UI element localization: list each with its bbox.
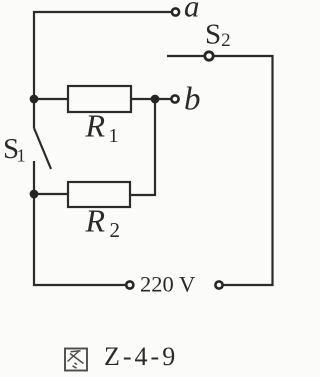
wire top from left corner to terminal a [34, 12, 171, 128]
wire R1 branch left [34, 98, 68, 100]
resistor R1 [68, 86, 131, 112]
junction node at R2 branch tap [30, 190, 39, 199]
terminal a circle [172, 8, 179, 15]
wire R2 branch left [34, 193, 68, 195]
wire bottom right segment [214, 56, 273, 285]
junction node b tap [151, 95, 160, 104]
svg-text:220 V: 220 V [140, 272, 195, 297]
caption figure glyph 图 [65, 349, 87, 371]
switch S2 wire left segment [167, 55, 204, 57]
wire lower-left vertical to bottom corner [34, 161, 126, 285]
terminal b circle [171, 95, 178, 102]
terminal 220V right circle [215, 281, 222, 288]
svg-text:Z-4-9: Z-4-9 [104, 342, 178, 371]
junction node at R1 branch tap [30, 95, 39, 104]
switch S1 blade [34, 128, 51, 169]
wire R1 to node b [131, 98, 171, 100]
switch S2 pivot circle [205, 52, 213, 60]
wire node b vertical down to R2 right [130, 99, 155, 195]
svg-text:b: b [184, 82, 201, 118]
resistor R2 [68, 182, 130, 207]
svg-text:a: a [184, 0, 200, 24]
terminal 220V left circle [126, 281, 133, 288]
